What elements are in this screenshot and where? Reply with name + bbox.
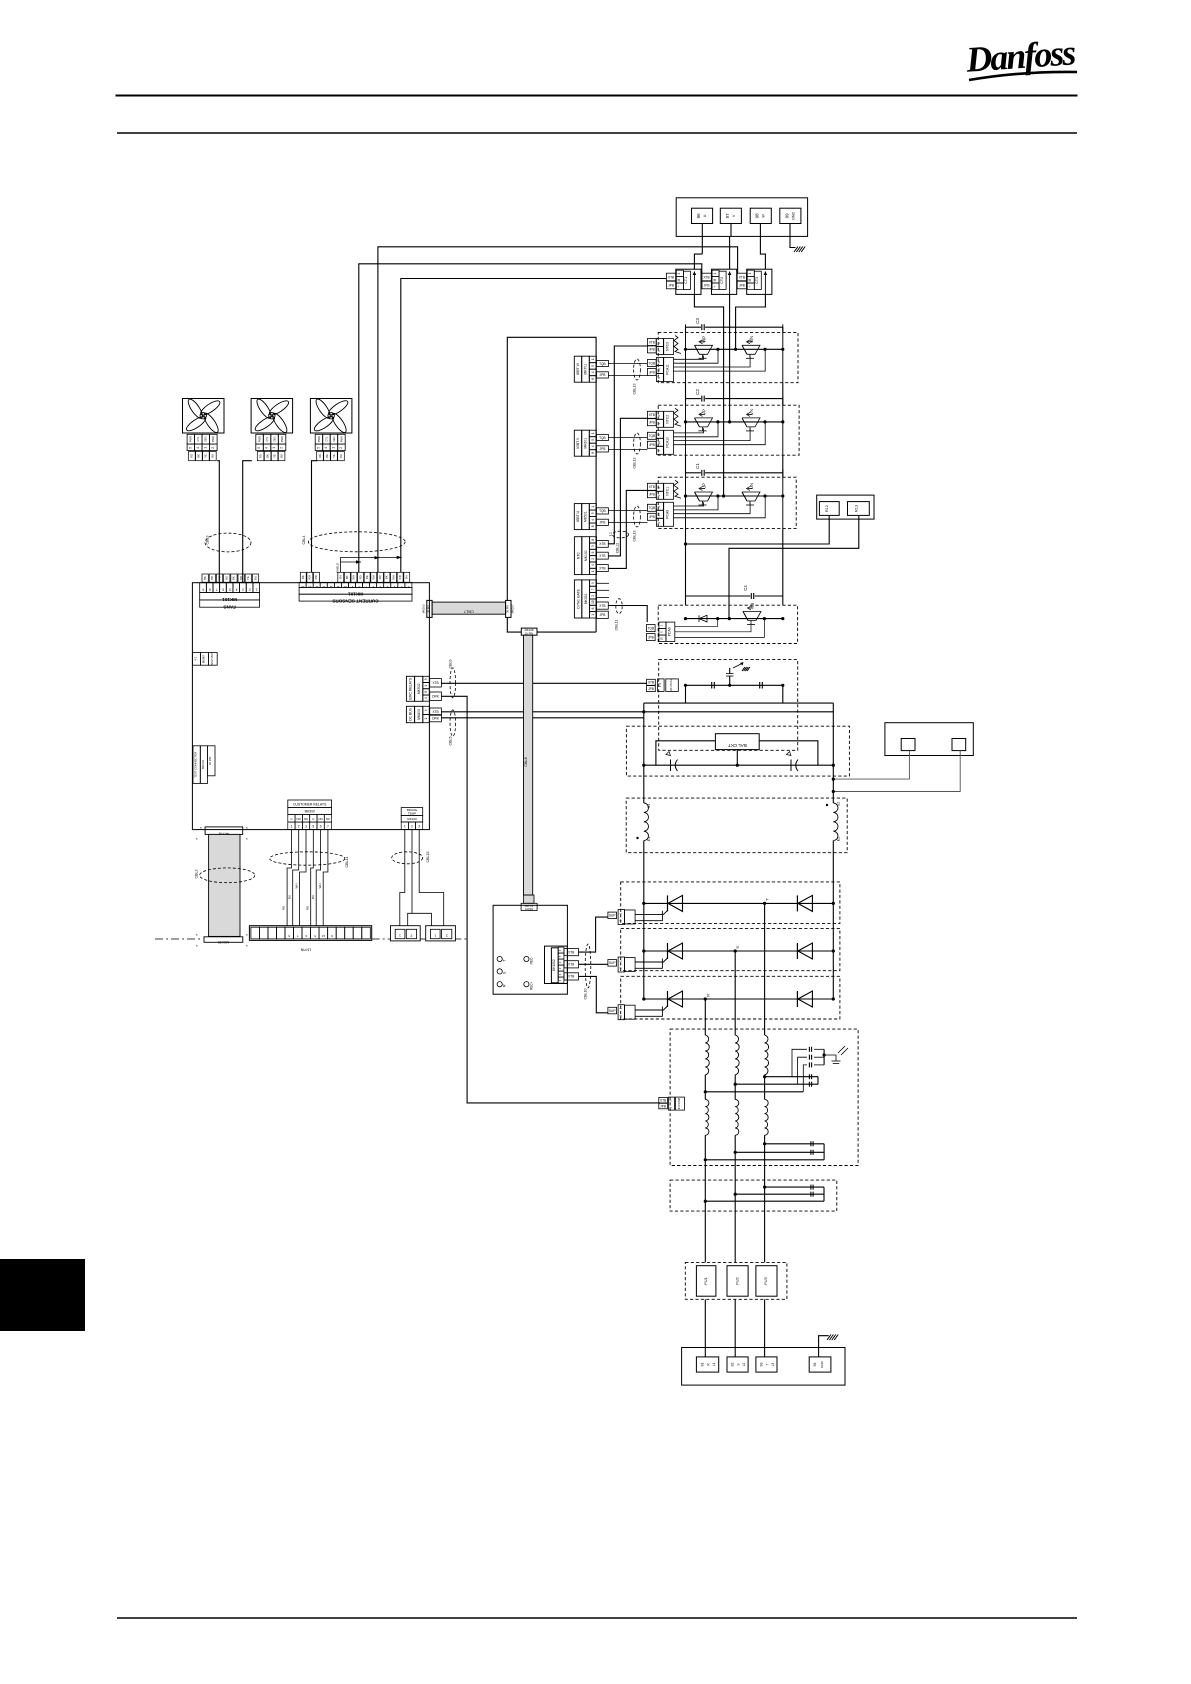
balance circuit BAL CKT [715, 734, 759, 750]
svg-text:NTC2: NTC2 [666, 415, 670, 424]
svg-text:9: 9 [351, 585, 353, 589]
wire sensor line T (from MK101 strip to CT3) [378, 247, 738, 573]
filter X-caps bottom [810, 1141, 812, 1146]
connector IGBT W MK701 [574, 356, 581, 382]
svg-text:VN: VN [749, 409, 754, 415]
svg-text:MK601: MK601 [584, 438, 588, 449]
svg-text:CBL14: CBL14 [345, 857, 349, 868]
capacitor C3 [686, 326, 701, 328]
filter ground [824, 1055, 836, 1061]
connector 16 PIN (ribbon) [204, 937, 243, 943]
diode row 2 [796, 943, 798, 959]
svg-text:*: * [246, 933, 248, 938]
svg-text:BK: BK [385, 575, 389, 579]
filter choke phase S upper [735, 1035, 739, 1075]
motor terminal 97 V [720, 208, 741, 223]
svg-text:1: 1 [657, 495, 661, 497]
svg-text:PCA10: PCA10 [666, 437, 670, 448]
connector EMC RELAYS MK502 [406, 676, 414, 701]
svg-text:4: 4 [386, 585, 388, 589]
cooling fan F2 [251, 399, 293, 434]
filter bottom wires [765, 1143, 825, 1145]
svg-text:5: 5 [317, 447, 321, 449]
fan F2 connector [256, 434, 263, 444]
svg-text:JPB: JPB [599, 447, 605, 451]
svg-text:9: 9 [202, 588, 204, 592]
rectifier row 3 (dashed outline) [621, 976, 840, 1019]
svg-text:WH: WH [318, 884, 322, 889]
connector MK108 16 PIN [521, 628, 537, 635]
svg-text:4: 4 [591, 519, 595, 521]
terminal strip 16 PIN (power card) [249, 926, 371, 941]
external terminal 1 [901, 739, 915, 751]
svg-text:PCA6: PCA6 [667, 627, 671, 636]
IGBT VP [695, 418, 713, 427]
svg-text:98: 98 [755, 213, 760, 219]
connector 44 PIN [205, 827, 243, 835]
svg-text:JPB: JPB [648, 687, 654, 691]
TEST CONNECTOR MK104 [193, 746, 200, 784]
DC rail segments between modules [685, 327, 687, 332]
svg-text:8: 8 [358, 585, 360, 589]
filter mid wires [765, 1076, 818, 1078]
wire R13 to brake [729, 515, 859, 618]
svg-text:5: 5 [257, 447, 261, 449]
svg-text:SUP: SUP [609, 914, 616, 918]
svg-text:1: 1 [434, 934, 436, 938]
svg-text:BU: BU [288, 895, 292, 899]
svg-text:8: 8 [424, 691, 428, 693]
svg-text:94: 94 [813, 1363, 817, 1367]
svg-text:WH: WH [352, 575, 356, 580]
motor terminal 98 W [750, 208, 771, 223]
node DC- [642, 710, 645, 713]
svg-text:BK: BK [365, 575, 369, 579]
svg-text:6: 6 [591, 551, 595, 553]
phase S' takeoff [734, 949, 737, 952]
collector wire module W [686, 348, 783, 350]
svg-text:1: 1 [618, 960, 622, 962]
wire sensor line R (from MK101 strip to CT1) [401, 279, 667, 573]
svg-text:CBL13: CBL13 [633, 458, 637, 469]
svg-text:8: 8 [591, 525, 595, 527]
svg-text:2: 2 [411, 825, 413, 829]
svg-text:5: 5 [591, 439, 595, 441]
svg-text:TEST CONNECTOR: TEST CONNECTOR [194, 752, 198, 778]
electrolytic capacitor C5 [670, 760, 672, 772]
svg-text:BK: BK [265, 454, 269, 458]
cable CBL2 marker [200, 868, 255, 883]
svg-text:L3: L3 [771, 1363, 775, 1367]
svg-text:JPB: JPB [649, 370, 655, 374]
phase R' drop [704, 999, 706, 1035]
phase node V [728, 420, 731, 423]
brake module (dashed outline) [658, 605, 797, 643]
svg-text:MK807: MK807 [201, 654, 205, 663]
phase R' takeoff [704, 997, 707, 1000]
SCR gate connector row 3 [608, 1007, 617, 1014]
brake nodes [684, 617, 687, 620]
SCR gate wires row 1 [635, 913, 659, 915]
terminal 93 L3 [756, 1357, 777, 1372]
wires PCA6 to T3 [675, 620, 718, 627]
wire motor W down [759, 224, 761, 237]
svg-text:YE: YE [246, 576, 250, 580]
svg-text:*: * [196, 944, 198, 949]
svg-text:PWR: PWR [317, 436, 321, 442]
svg-text:JPB: JPB [599, 521, 605, 525]
svg-text:JPB: JPB [649, 443, 655, 447]
svg-text:9: 9 [305, 934, 307, 938]
svg-text:CBL10: CBL10 [584, 989, 588, 1000]
FANS strip wire tags [202, 574, 208, 582]
svg-text:PWR: PWR [189, 436, 193, 442]
wire MK108 to gate bus [537, 631, 596, 633]
svg-text:PWR: PWR [280, 436, 284, 442]
svg-text:1: 1 [591, 614, 595, 616]
gate driver connector PCA11 [647, 360, 656, 367]
mains ground stub [819, 1336, 829, 1357]
svg-text:*: * [200, 826, 202, 831]
top rule 2 [117, 132, 1077, 134]
wire NTC row3 to NTC1 [608, 490, 647, 568]
svg-text:S1: S1 [647, 804, 651, 808]
svg-text:91: 91 [701, 1363, 705, 1367]
svg-text:REC+: REC+ [529, 981, 533, 990]
svg-text:MK501: MK501 [584, 511, 588, 522]
svg-text:E2: E2 [837, 837, 841, 841]
svg-text:9: 9 [657, 506, 661, 508]
IGBT WN [742, 345, 760, 354]
gate wires PCA9 to U [674, 502, 704, 506]
svg-text:XTB: XTB [739, 275, 745, 279]
phase node W [734, 348, 737, 351]
phase verticals inside filter [704, 1075, 706, 1100]
svg-text:1: 1 [657, 423, 661, 425]
wire sensor line S (from MK101 strip to CT2) [359, 264, 702, 573]
svg-text:XTB: XTB [599, 554, 605, 558]
gate-balance resistor module U [674, 480, 681, 498]
svg-text:10: 10 [657, 513, 661, 517]
svg-text:T3: T3 [750, 602, 755, 608]
cable CBL15 marker [392, 852, 423, 864]
svg-text:4: 4 [424, 709, 428, 711]
svg-text:10: 10 [657, 368, 661, 372]
svg-text:7: 7 [215, 588, 217, 592]
node dots module W [716, 348, 719, 351]
svg-text:BU: BU [311, 895, 315, 899]
svg-text:YE: YE [332, 454, 336, 458]
svg-text:UP: UP [702, 483, 707, 489]
svg-text:WH: WH [391, 575, 395, 580]
svg-text:SH: SH [405, 575, 409, 579]
svg-text:MK701: MK701 [584, 364, 588, 375]
top rule 1 [116, 95, 1078, 97]
svg-text:S': S' [736, 945, 740, 949]
svg-text:JPB: JPB [649, 348, 655, 352]
svg-text:BK: BK [345, 575, 349, 579]
motor terminal 96 U [692, 208, 713, 223]
svg-text:3: 3 [424, 678, 428, 680]
cooling fan F1 [183, 399, 225, 434]
svg-text:SEN: SEN [272, 436, 276, 441]
connector PCA6 [646, 625, 655, 632]
svg-text:2: 2 [298, 825, 300, 829]
svg-text:1: 1 [204, 447, 208, 449]
svg-text:BU: BU [253, 576, 257, 580]
thermistor block 2 [426, 926, 456, 941]
svg-text:2: 2 [410, 934, 412, 938]
gate-balance resistor module W [674, 336, 681, 354]
svg-text:2: 2 [249, 588, 251, 592]
svg-text:10: 10 [321, 934, 325, 938]
svg-text:1: 1 [659, 625, 663, 627]
fan F3 connector [315, 434, 323, 444]
svg-text:FU3: FU3 [763, 1276, 768, 1284]
svg-text:8: 8 [288, 934, 290, 938]
filter Y-caps top [808, 1047, 810, 1052]
svg-text:4: 4 [324, 447, 328, 449]
svg-text:SEN: SEN [332, 436, 336, 441]
svg-text:*: * [246, 837, 248, 842]
CT1 current transformer (phase U) [676, 269, 701, 294]
svg-text:1 3: 1 3 [658, 683, 662, 688]
svg-text:IGBT W: IGBT W [576, 362, 580, 375]
svg-text:BK: BK [197, 454, 201, 458]
wire fan F2 [243, 461, 252, 583]
svg-text:10: 10 [343, 585, 347, 589]
wire motor GND down [790, 224, 796, 248]
svg-text:RD: RD [378, 575, 382, 579]
svg-text:NC: NC [326, 817, 331, 821]
svg-text:8: 8 [591, 378, 595, 380]
svg-text:JPB: JPB [660, 1104, 666, 1108]
IGBT module W (dashed outline) [658, 332, 798, 382]
filter choke phase R lower [705, 1099, 709, 1135]
svg-text:SUP: SUP [609, 1009, 616, 1013]
svg-text:R12: R12 [825, 505, 829, 512]
svg-text:7: 7 [327, 825, 329, 829]
svg-text:TQB: TQB [649, 506, 656, 510]
inductor L1 [644, 803, 649, 841]
svg-text:CBL13: CBL13 [633, 531, 637, 542]
svg-text:C3: C3 [695, 318, 700, 324]
svg-text:CBL4: CBL4 [302, 536, 306, 545]
DC rails choke to rectifier [643, 841, 645, 904]
svg-text:2: 2 [211, 447, 215, 449]
svg-text:6: 6 [372, 585, 374, 589]
filter mid taps [763, 1075, 766, 1078]
external terminal box [885, 723, 973, 756]
IGBT module U (dashed outline) [658, 477, 796, 528]
svg-text:8: 8 [591, 539, 595, 541]
svg-text:1: 1 [657, 522, 661, 524]
svg-text:TQB: TQB [599, 362, 606, 366]
svg-text:DYNC GATE: DYNC GATE [576, 588, 580, 608]
svg-text:BK: BK [203, 576, 207, 580]
svg-text:2: 2 [618, 1015, 622, 1017]
wire fan F3 [312, 461, 318, 573]
svg-text:1: 1 [669, 1106, 673, 1108]
svg-text:CONN: CONN [525, 907, 533, 911]
wire DC+ step [441, 703, 833, 712]
cable CBL13 marker (U) [634, 506, 641, 527]
svg-text:CBL6: CBL6 [449, 660, 453, 669]
soft charge test point S [497, 969, 502, 974]
svg-text:RD: RD [210, 576, 214, 580]
svg-text:MK502: MK502 [417, 683, 421, 694]
svg-text:R13: R13 [855, 505, 859, 512]
svg-text:MK1502: MK1502 [552, 959, 556, 971]
svg-text:5: 5 [314, 934, 316, 938]
svg-text:BU: BU [339, 454, 343, 458]
svg-text:XTB: XTB [649, 485, 655, 489]
wire motor V down [730, 224, 732, 237]
svg-text:1: 1 [657, 377, 661, 379]
svg-text:CT3: CT3 [755, 277, 759, 284]
svg-text:+: + [748, 285, 752, 287]
cable CBL6 marker [450, 668, 456, 698]
wire phase V (motor to V module) [729, 236, 731, 269]
svg-text:1: 1 [591, 432, 595, 434]
cable CBL11 marker [616, 599, 622, 614]
motor terminal 99 GND [780, 208, 801, 223]
svg-text:3: 3 [591, 545, 595, 547]
svg-text:2: 2 [400, 585, 402, 589]
svg-text:XTB: XTB [568, 950, 574, 954]
phase node U [722, 494, 725, 497]
svg-text:4: 4 [591, 371, 595, 373]
svg-text:NTC: NTC [576, 552, 580, 560]
svg-text:36 PIN: 36 PIN [208, 757, 212, 766]
svg-text:NC: NC [304, 817, 309, 821]
svg-text:JPB: JPB [668, 283, 674, 287]
svg-text:MK100: MK100 [407, 817, 417, 821]
svg-text:RD: RD [358, 575, 362, 579]
svg-text:V: V [732, 214, 736, 217]
svg-text:M: M [713, 278, 717, 281]
svg-text:5: 5 [189, 447, 193, 449]
svg-text:6: 6 [659, 631, 663, 633]
svg-text:2: 2 [657, 342, 661, 344]
svg-text:10: 10 [657, 441, 661, 445]
svg-text:SUP: SUP [609, 961, 616, 965]
svg-text:E1: E1 [647, 837, 651, 841]
svg-text:PWR: PWR [211, 436, 215, 442]
wire to external terminal 1 [833, 751, 909, 780]
svg-text:97: 97 [725, 213, 730, 219]
svg-text:10: 10 [591, 600, 595, 604]
rectifier row 2 wire [644, 950, 834, 952]
svg-text:5: 5 [229, 588, 231, 592]
SCR gate wires row 2 [635, 961, 659, 963]
svg-text:1: 1 [255, 588, 257, 592]
svg-text:IN PCM8: IN PCM8 [677, 1097, 681, 1109]
CURRENT SENSORS wire tags [300, 572, 306, 582]
svg-text:*: * [196, 837, 198, 842]
shield bus [340, 557, 342, 572]
IGBT VN [742, 418, 760, 427]
bottom rule [117, 1617, 1077, 1619]
CT3 current transformer (phase W) [747, 269, 772, 294]
svg-text:BK: BK [325, 454, 329, 458]
svg-text:7: 7 [365, 585, 367, 589]
connector SPLIT BUS MK807 [192, 653, 200, 666]
gate driver connector PCA9 [647, 504, 656, 511]
svg-text:CBL13: CBL13 [633, 384, 637, 395]
svg-text:12: 12 [329, 585, 333, 589]
svg-text:CTL: CTL [196, 436, 200, 441]
svg-text:CBL2: CBL2 [195, 870, 199, 879]
svg-text:3: 3 [242, 588, 244, 592]
capacitor C4 [686, 595, 751, 597]
svg-text:W: W [762, 214, 766, 218]
svg-text:NTC1: NTC1 [666, 487, 670, 496]
svg-text:4: 4 [591, 564, 595, 566]
svg-text:5: 5 [312, 825, 314, 829]
filter X-caps mid [808, 1074, 810, 1079]
svg-text:CTL: CTL [324, 436, 328, 441]
svg-text:1: 1 [591, 570, 595, 572]
svg-text:1: 1 [657, 450, 661, 452]
svg-text:C4: C4 [743, 585, 748, 591]
svg-text:PCA9: PCA9 [666, 510, 670, 519]
svg-text:GND: GND [791, 212, 795, 220]
wire NTC row1 to NTC3 [608, 346, 647, 544]
fuse FU3 [756, 1266, 777, 1297]
svg-text:8: 8 [591, 452, 595, 454]
SCR row 3 [667, 991, 669, 1007]
svg-text:XTB: XTB [649, 340, 655, 344]
svg-text:NO: NO [318, 817, 323, 821]
svg-text:CT2: CT2 [720, 277, 724, 284]
svg-text:*: * [246, 826, 248, 831]
svg-text:JPB: JPB [599, 613, 605, 617]
svg-text:FANS: FANS [223, 605, 235, 610]
svg-text:*: * [196, 933, 198, 938]
ground symbol (mains PE) [827, 1335, 831, 1341]
svg-text:XTB: XTB [703, 275, 709, 279]
svg-text:XTB: XTB [668, 275, 674, 279]
svg-text:TQB: TQB [649, 361, 656, 365]
svg-text:1: 1 [424, 685, 428, 687]
CBL7 connector left MK103 [427, 600, 432, 617]
filter bottom taps [763, 1142, 766, 1145]
svg-text:CBL12: CBL12 [616, 543, 620, 553]
svg-text:4 1: 4 1 [193, 656, 197, 660]
svg-text:4: 4 [265, 447, 269, 449]
collector wire module V [686, 421, 783, 423]
thermistor block 1 [391, 926, 421, 941]
svg-text:MK803: MK803 [417, 709, 421, 720]
svg-text:1: 1 [591, 506, 595, 508]
svg-text:11: 11 [336, 585, 339, 589]
svg-text:JPB: JPB [739, 283, 745, 287]
svg-text:99: 99 [784, 213, 789, 219]
svg-text:CUSTOMER RELAYS: CUSTOMER RELAYS [293, 803, 327, 807]
cable CBL4 marker [308, 532, 405, 552]
svg-text:7: 7 [591, 588, 595, 590]
svg-text:TQB: TQB [599, 436, 606, 440]
svg-text:GND: GND [820, 1360, 824, 1368]
svg-text:RD: RD [190, 454, 194, 458]
svg-text:92: 92 [731, 1363, 735, 1367]
svg-text:XTB: XTB [432, 681, 438, 685]
svg-text:M: M [677, 278, 681, 281]
IGBT UN [742, 492, 760, 501]
svg-text:9: 9 [657, 434, 661, 436]
svg-text:14: 14 [315, 585, 319, 589]
